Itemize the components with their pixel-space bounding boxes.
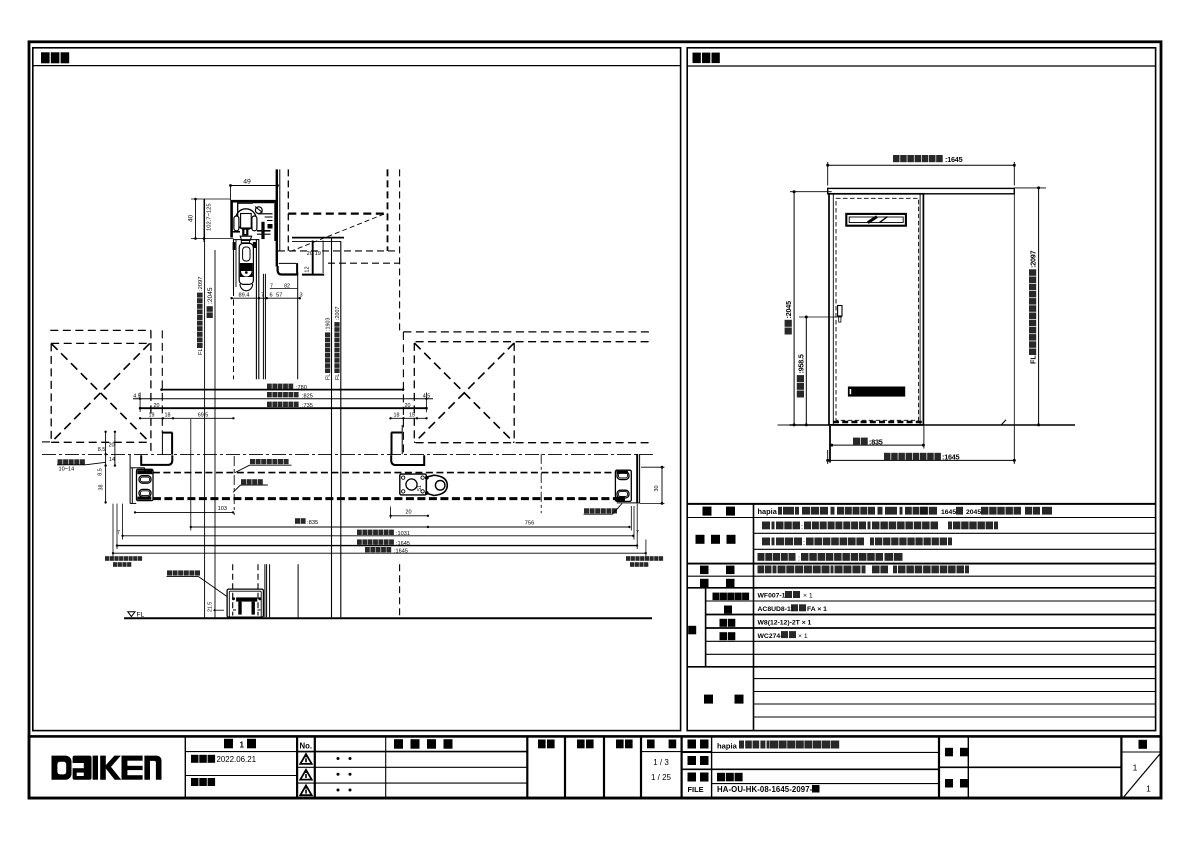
row 把手 content — [758, 566, 765, 574]
right panel frame — [687, 48, 1155, 731]
dim 20 near handle — [391, 515, 428, 517]
svg-text::958.5: :958.5 — [796, 354, 805, 373]
品番 sub divider — [705, 588, 707, 667]
leader hikinokoshi — [58, 459, 63, 464]
svg-text:10~14: 10~14 — [59, 466, 75, 472]
revision triangles — [300, 754, 311, 764]
svg-text:51: 51 — [417, 485, 423, 491]
dashed diagonal — [290, 214, 384, 252]
svg-text:4.5: 4.5 — [133, 393, 141, 399]
hanger bracket trapezoid — [240, 236, 251, 240]
svg-text::780: :780 — [296, 385, 307, 391]
roller circle — [236, 209, 257, 230]
svg-text:HA-OU-HK-08-1645-2097-: HA-OU-HK-08-1645-2097- — [717, 785, 813, 794]
left stopper bracket — [137, 469, 154, 500]
svg-text:FA × 1: FA × 1 — [807, 606, 827, 613]
mid dim A line (780) — [162, 389, 403, 391]
svg-text::1903: :1903 — [326, 318, 332, 332]
bottom door verticals dashed — [232, 564, 234, 615]
right wall bottom dashed — [416, 442, 652, 444]
top rail bar — [828, 188, 1015, 193]
right 30 dim — [661, 467, 663, 503]
svg-text:20: 20 — [405, 403, 411, 409]
svg-text:1: 1 — [1146, 784, 1151, 794]
door inner dashed rect — [836, 198, 919, 420]
件名 label blob — [945, 748, 953, 757]
spec table label/content divider — [753, 504, 755, 731]
left panel title 断面図 blob — [41, 52, 50, 63]
svg-text::2097: :2097 — [198, 276, 204, 291]
svg-text:8.5: 8.5 — [98, 468, 104, 476]
mid dim B line (825) — [133, 398, 433, 400]
window slit hatch — [868, 217, 877, 223]
svg-text:38: 38 — [99, 485, 105, 491]
rail end cap note left — [105, 556, 109, 561]
svg-text:8.5: 8.5 — [98, 447, 106, 453]
改訂日 label — [191, 778, 199, 786]
page diagonal — [1123, 754, 1160, 798]
frame head profile — [278, 266, 299, 275]
svg-text::735: :735 — [302, 403, 313, 409]
title block header row lines — [185, 751, 314, 753]
svg-text::1645: :1645 — [394, 548, 408, 554]
svg-text:18: 18 — [165, 413, 171, 419]
svg-text::835: :835 — [307, 520, 318, 526]
door-end centerline vertical — [233, 456, 235, 515]
label 備考 — [704, 695, 713, 704]
kick vent black bar — [848, 387, 905, 397]
svg-text:1 / 3: 1 / 3 — [653, 758, 669, 767]
left frame jamb in plan — [161, 433, 163, 455]
row 吊戸レール content — [758, 553, 765, 561]
備考 inner lines — [754, 678, 1156, 680]
svg-text:18: 18 — [394, 413, 400, 419]
mid dim C line (735) — [140, 407, 426, 409]
label 錠類 — [700, 579, 709, 588]
名称 label blob — [688, 740, 697, 749]
door section verticals — [233, 239, 235, 290]
部番 label blob — [945, 779, 953, 788]
svg-text:20: 20 — [154, 403, 160, 409]
sub label 出隅 — [720, 632, 728, 640]
svg-text:20: 20 — [405, 510, 411, 516]
svg-text::2045: :2045 — [784, 301, 793, 319]
svg-text:FL: FL — [1029, 355, 1038, 364]
svg-text:19: 19 — [149, 413, 155, 419]
svg-text:1645: 1645 — [941, 509, 956, 516]
dim 1031 row — [123, 535, 634, 537]
handle lock in plan — [400, 474, 427, 495]
svg-text::835: :835 — [869, 437, 883, 446]
svg-text:FL: FL — [326, 374, 332, 380]
rail housing outer — [232, 201, 276, 241]
door thick dashed line in plan — [153, 497, 616, 500]
sub label 引手 — [720, 619, 728, 627]
right panel title 正面図 blob — [693, 53, 701, 64]
図名 value 三面図 blob — [717, 773, 725, 782]
dim door height 2045 rotated — [793, 192, 795, 425]
制定日 label + date — [191, 755, 199, 763]
svg-text:19: 19 — [315, 251, 321, 257]
svg-text:× 1: × 1 — [798, 633, 808, 640]
right end jamb verticals — [636, 454, 638, 503]
svg-text:No.: No. — [300, 742, 313, 751]
svg-text:× 1: × 1 — [803, 593, 813, 600]
door stile black tops — [233, 242, 236, 250]
leader shimo stopper bottom — [167, 570, 172, 575]
floor line — [124, 617, 652, 619]
left panel frame — [33, 48, 681, 731]
DAIKEN logo — [52, 756, 162, 780]
cell 第1版 header blob — [224, 739, 233, 749]
rail end extension vertical — [1013, 194, 1015, 426]
elevation top dim text — [893, 155, 900, 162]
svg-text:FL: FL — [198, 347, 204, 355]
door inner edge lines — [832, 194, 834, 425]
svg-text::: : — [801, 524, 803, 531]
svg-text::2045: :2045 — [207, 287, 214, 304]
wall centerline dash-dot full — [42, 454, 653, 456]
bottom casing verticals — [264, 564, 266, 617]
svg-text:AC8UD8-11: AC8UD8-11 — [758, 606, 795, 613]
bottom stopper box — [227, 589, 263, 617]
revision row dots — [337, 757, 340, 760]
4th dim row left (19/18/69.5) — [140, 417, 233, 419]
hanger bolt head — [242, 228, 248, 236]
作成 header blob — [616, 740, 624, 749]
svg-text:30: 30 — [654, 485, 660, 491]
svg-text::2097: :2097 — [1029, 250, 1038, 268]
svg-text::1645: :1645 — [396, 541, 410, 547]
bottom stopper inner black staple — [236, 597, 257, 601]
right wall X box — [413, 343, 415, 443]
見積 label blob — [688, 756, 697, 765]
4th dim row right (18/15) — [391, 417, 427, 419]
leader label door body — [241, 479, 246, 484]
dim 835 / 756 row — [191, 526, 630, 528]
rail end cap note right — [626, 556, 630, 561]
svg-text:69.5: 69.5 — [198, 413, 209, 419]
sub label 扉 — [724, 606, 732, 614]
label 把手 — [700, 566, 709, 575]
handle centerline vertical — [540, 454, 542, 513]
dim frame 1645 row — [113, 552, 646, 554]
svg-text::1031: :1031 — [396, 531, 410, 537]
rail housing inner lines — [237, 202, 239, 232]
title block column dividers — [184, 736, 186, 798]
svg-text:2022.06.21: 2022.06.21 — [217, 755, 257, 764]
right wall left edge dashed vertical — [402, 332, 404, 454]
縮尺 header blob — [647, 740, 655, 749]
label 型式 — [703, 507, 712, 516]
svg-text:hapia: hapia — [717, 741, 738, 750]
left wall top dashed — [50, 329, 151, 331]
casing verticals below head — [262, 274, 264, 380]
svg-text:21.5: 21.5 — [208, 602, 214, 612]
spec table top line — [687, 503, 1155, 505]
label 品番 — [688, 626, 696, 635]
hanger bolt in door — [239, 243, 253, 284]
svg-text:1: 1 — [240, 741, 245, 750]
svg-text:W8(12-12)-2T × 1: W8(12-12)-2T × 1 — [758, 619, 812, 626]
bottom stopper dashes — [833, 421, 922, 424]
rail right bracket detail — [255, 207, 262, 214]
wall above opening dashed verticals — [387, 169, 389, 251]
svg-text:57: 57 — [276, 293, 282, 299]
svg-text::1645: :1645 — [945, 155, 963, 164]
title block outer — [29, 736, 1161, 798]
elevation top dim line — [828, 164, 1015, 166]
door handle — [838, 306, 842, 317]
bottom wall dashed vertical — [399, 564, 401, 617]
頁 header blob — [1139, 740, 1148, 749]
right wall top dashed lines — [403, 331, 651, 333]
right frame jamb in plan — [401, 425, 403, 454]
dim 102.7-125 rotated — [203, 199, 205, 242]
dashed stud line — [287, 169, 289, 251]
svg-text:2045: 2045 — [966, 509, 981, 516]
svg-text:1 / 25: 1 / 25 — [651, 773, 672, 782]
plan ext verticals left — [122, 504, 124, 540]
svg-text:49: 49 — [243, 179, 251, 186]
right panel title line — [687, 65, 1155, 67]
label 仕上げ — [696, 535, 705, 544]
dim bottom stopper 1645 — [827, 450, 829, 464]
wall stud above (thick) — [276, 169, 278, 266]
floor line — [778, 424, 790, 426]
svg-text:103: 103 — [218, 506, 227, 512]
roller side guides — [234, 216, 239, 231]
svg-text:6: 6 — [269, 293, 272, 299]
door outline — [829, 194, 923, 425]
svg-text:12: 12 — [305, 266, 311, 272]
確認 header blob — [577, 740, 585, 749]
改訂履歴 header blob — [394, 739, 403, 749]
FL marker — [128, 612, 135, 617]
svg-text:hapia: hapia — [758, 507, 778, 516]
svg-text:7: 7 — [117, 530, 120, 536]
ceiling line solid — [292, 237, 344, 239]
svg-text:WC274-: WC274- — [758, 633, 783, 640]
承認 header blob — [538, 740, 546, 749]
svg-text:FL: FL — [335, 374, 341, 380]
left wall X box — [50, 343, 52, 442]
svg-text:FILE: FILE — [688, 785, 704, 794]
row 扉パネル content — [762, 522, 770, 530]
rail dashed line in plan — [153, 472, 616, 474]
wall above opening dashed horizontals — [288, 213, 387, 215]
rotated dim texts FL2097 / door2045 — [197, 276, 204, 355]
left wall edge verticals dashed — [150, 330, 152, 454]
plan ext verticals right — [630, 506, 632, 531]
svg-text:40: 40 — [188, 215, 195, 223]
dim 40 rotated — [195, 199, 197, 239]
right stopper bracket — [615, 470, 631, 501]
wall lower dashed line left part — [42, 441, 51, 443]
svg-text:102.7~125: 102.7~125 — [207, 203, 213, 231]
svg-text:7: 7 — [261, 293, 264, 299]
svg-text:1: 1 — [1133, 763, 1138, 773]
dim handle height 958.5 rotated — [805, 317, 807, 425]
row 戸先框 content — [762, 538, 770, 546]
sub label 吊戸レール — [713, 593, 720, 601]
svg-text:14: 14 — [109, 457, 115, 463]
svg-text:756: 756 — [525, 521, 535, 527]
left vertical dim line — [105, 432, 107, 504]
dim door width 835 — [829, 426, 831, 463]
left panel title line — [33, 65, 681, 67]
long verticals with rotated dims (FL-1903/FL-2007) — [331, 238, 333, 618]
leader label nomikomi — [250, 459, 255, 464]
svg-text::1645: :1645 — [942, 453, 960, 462]
roller center white — [241, 214, 252, 229]
svg-text:WF007-1: WF007-1 — [758, 593, 786, 600]
floor tick near stopper end — [1002, 420, 1007, 425]
leader shimo stopper (plan right) — [584, 508, 589, 513]
svg-text::825: :825 — [302, 393, 313, 399]
svg-text:15: 15 — [409, 413, 415, 419]
dim 1645 row — [117, 545, 637, 547]
dim 103 — [135, 511, 233, 513]
svg-text::2007: :2007 — [335, 307, 341, 321]
door window slit — [846, 214, 906, 226]
spec table row lines — [687, 517, 1155, 519]
svg-text:20: 20 — [109, 443, 115, 449]
long dim extension verticals — [204, 199, 206, 618]
svg-text::: : — [803, 540, 805, 547]
svg-text::: : — [798, 556, 800, 563]
svg-text:89.4: 89.4 — [239, 293, 250, 299]
dim FL to rail top 2097 rotated — [1038, 188, 1040, 425]
図名 label blob — [688, 773, 697, 782]
